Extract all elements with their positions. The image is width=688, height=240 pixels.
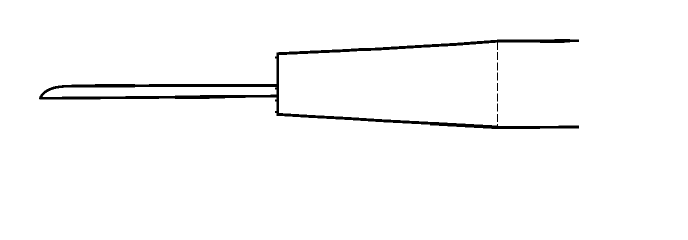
blade bottom edge thick patch [175, 95, 225, 99]
blade top edge thick patch [95, 84, 135, 88]
handle bottom edge thick patch [430, 124, 497, 128]
handle left vertical edge [276, 52, 279, 114]
handle bottom edge (tapered cone) [276, 114, 579, 127]
blade tip bevel (top edge curve) [40, 86, 67, 98]
handle top edge thick patch right [540, 39, 570, 43]
blade bottom edge [41, 96, 278, 98]
handle section dashed line [497, 42, 499, 127]
handle top edge (tapered cone) [276, 41, 579, 54]
handle left edge tick marks (scan nubs) [275, 58, 278, 113]
blade top edge [65, 84, 277, 88]
